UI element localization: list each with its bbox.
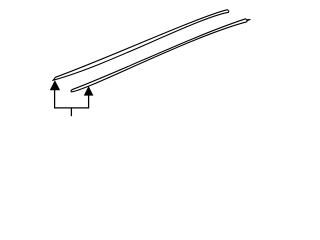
left vertical wire + horizontal wire + right vertical wire	[55, 90, 89, 108]
center stem wire	[70, 108, 72, 116]
lower strip right tip nib	[247, 19, 250, 21]
bracket leader lines	[55, 90, 89, 116]
left arrowhead	[50, 80, 60, 90]
lower moulding strip	[71, 19, 247, 92]
upper moulding strip	[53, 10, 229, 81]
right arrowhead	[84, 86, 94, 96]
